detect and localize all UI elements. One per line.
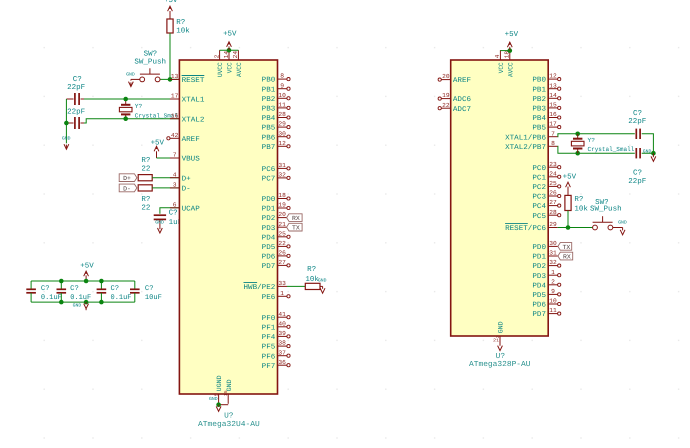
pin UVCC 2 (top): [213, 50, 224, 77]
svg-text:PB1: PB1: [532, 86, 546, 94]
svg-text:VCC: VCC: [498, 62, 505, 73]
svg-text:PF6: PF6: [262, 353, 276, 361]
pin PB3 15: [532, 102, 560, 114]
svg-text:26: 26: [278, 250, 286, 257]
pin RESET 13: [170, 73, 205, 85]
svg-text:29: 29: [278, 121, 286, 128]
junction bottom GND: [216, 402, 221, 407]
pin PD4 2: [532, 278, 560, 290]
svg-text:22: 22: [278, 240, 286, 247]
wire right caps to ground corner: [642, 134, 654, 153]
resistor R? 10k (RESET pullup): [167, 19, 190, 36]
switch SW? SW_Push (right): [590, 199, 623, 230]
svg-text:GND: GND: [618, 220, 627, 226]
wire ground bottom rail: [31, 301, 135, 303]
IC U? ATmega32U4-AU: [179, 60, 277, 394]
pin PC3 26: [532, 190, 560, 202]
svg-text:XTAL2/PB7: XTAL2/PB7: [505, 143, 546, 152]
svg-text:PC1: PC1: [532, 174, 546, 182]
pin PB6 30: [262, 130, 290, 142]
svg-text:PB0: PB0: [262, 77, 276, 85]
pin PD3 1: [532, 269, 560, 281]
svg-text:0.1uF: 0.1uF: [111, 294, 132, 302]
svg-text:PB2: PB2: [532, 96, 546, 104]
resistor R? 10k (HWB): [305, 266, 320, 290]
pin PD5 9: [532, 288, 560, 300]
pin UGND 5 (bottom): [214, 375, 223, 403]
global label D+: [119, 174, 137, 182]
svg-text:17: 17: [549, 121, 557, 128]
pin ADC7 22: [438, 102, 471, 114]
svg-text:XTAL1/PB6: XTAL1/PB6: [505, 133, 546, 142]
svg-text:PC0: PC0: [532, 165, 546, 173]
pin RESET/PC6 29: [505, 221, 558, 233]
svg-text:Crystal_Small: Crystal_Small: [588, 146, 635, 153]
svg-text:9: 9: [280, 82, 284, 89]
pin PC0 23: [532, 161, 560, 173]
svg-text:PD2: PD2: [532, 263, 546, 271]
pin VCC 14 (top): [223, 50, 234, 73]
svg-text:GND: GND: [498, 321, 505, 333]
pin PB1 9: [262, 82, 290, 94]
wire VBUS net: [157, 157, 180, 159]
svg-text:PD1: PD1: [262, 206, 276, 214]
svg-text:C?: C?: [633, 170, 642, 178]
wire top VCC link (right IC): [500, 50, 509, 52]
svg-text:20: 20: [442, 73, 450, 80]
pin AVCC 24 (top): [232, 50, 243, 77]
pin VBUS 7: [170, 152, 200, 164]
wire +5V top rail: [31, 280, 135, 282]
svg-text:+5V: +5V: [223, 31, 237, 39]
svg-text:RESET/PC6: RESET/PC6: [505, 224, 546, 233]
svg-text:26: 26: [549, 190, 557, 197]
svg-text:PF1: PF1: [262, 324, 276, 332]
svg-text:U?: U?: [224, 411, 233, 420]
svg-text:AREF: AREF: [182, 136, 200, 144]
global label TX (right IC PD0): [558, 243, 572, 251]
pin PD3 21: [262, 221, 287, 233]
svg-text:8: 8: [551, 140, 555, 147]
svg-text:PB3: PB3: [532, 106, 546, 114]
wire RESET/PC6 to switch: [558, 227, 593, 229]
pin PD7 11: [532, 307, 560, 319]
pin PC2 25: [532, 180, 560, 192]
svg-text:10uF: 10uF: [145, 294, 162, 302]
svg-text:25: 25: [549, 180, 557, 187]
svg-text:PD5: PD5: [262, 244, 276, 252]
capacitor C? 22pF (XTAL1): [66, 76, 85, 105]
svg-text:PB4: PB4: [532, 115, 546, 123]
wire capacitor rail to ground: [65, 99, 67, 143]
pin GND 3 (bottom right IC): [496, 321, 505, 345]
pin XTAL2 16: [170, 112, 205, 124]
ground at crystal capacitors: [62, 136, 71, 150]
svg-text:PB5: PB5: [262, 125, 276, 133]
svg-text:UVCC: UVCC: [217, 62, 224, 77]
pin PF6 37: [262, 349, 290, 361]
svg-text:2: 2: [551, 278, 555, 285]
pin PC1 24: [532, 170, 560, 182]
svg-text:12: 12: [549, 73, 557, 80]
svg-text:37: 37: [278, 349, 286, 356]
pin ADC6 19: [438, 92, 471, 104]
svg-text:PB4: PB4: [262, 115, 276, 123]
svg-text:PD2: PD2: [262, 215, 276, 223]
svg-text:+5V: +5V: [80, 263, 94, 271]
svg-text:GND: GND: [318, 277, 327, 283]
svg-text:27: 27: [549, 199, 557, 206]
pin XTAL2/PB7 8: [505, 140, 558, 152]
svg-text:PD4: PD4: [262, 234, 276, 242]
svg-text:C?: C?: [41, 285, 50, 293]
capacitor C? 10uF (4): [130, 281, 162, 302]
pin PC7 32: [262, 172, 290, 184]
pin D+ 4: [170, 171, 191, 183]
pin PB4 28: [262, 111, 290, 123]
svg-text:RX: RX: [563, 254, 571, 261]
svg-text:GND: GND: [226, 379, 233, 391]
pin PD1 31: [532, 250, 557, 262]
junction bottom rail C2: [59, 300, 64, 305]
pin PD7 27: [262, 259, 290, 271]
svg-text:13: 13: [171, 73, 179, 80]
wire XTAL2/PB7 jog down: [558, 146, 635, 153]
svg-text:16: 16: [549, 111, 557, 118]
svg-text:GND: GND: [643, 148, 652, 154]
power +5V (right IC VCC): [505, 31, 519, 51]
svg-text:PB3: PB3: [262, 106, 276, 114]
svg-text:10: 10: [278, 92, 286, 99]
resistor R? 22 (D+): [138, 157, 152, 181]
svg-text:4: 4: [494, 54, 501, 58]
svg-text:0.1uF: 0.1uF: [41, 294, 62, 302]
svg-text:PC7: PC7: [262, 176, 276, 184]
svg-text:C?: C?: [169, 210, 178, 218]
svg-text:XTAL1: XTAL1: [182, 97, 205, 105]
svg-text:ATmega328P-AU: ATmega328P-AU: [469, 360, 531, 369]
svg-text:21: 21: [493, 339, 499, 344]
svg-text:8: 8: [280, 73, 284, 80]
svg-text:38: 38: [278, 340, 286, 347]
svg-text:PD6: PD6: [262, 254, 276, 262]
svg-text:19: 19: [442, 92, 450, 99]
svg-text:PF4: PF4: [262, 334, 276, 342]
wire RESET net vertical: [169, 33, 171, 79]
junction bottom rail C3: [99, 300, 104, 305]
pin HWB/PE2 33: [244, 280, 288, 292]
capacitor C? 22pF (XTAL2): [66, 108, 85, 129]
svg-text:25: 25: [278, 230, 286, 237]
pin PB2 14: [532, 92, 560, 104]
svg-text:21: 21: [278, 221, 286, 228]
svg-text:22pF: 22pF: [628, 178, 646, 186]
svg-text:27: 27: [278, 259, 286, 266]
svg-text:11: 11: [549, 307, 557, 314]
svg-text:XTAL2: XTAL2: [182, 116, 205, 124]
pin AREF 20: [438, 73, 471, 85]
svg-text:AVCC: AVCC: [507, 62, 514, 77]
svg-text:PC4: PC4: [532, 203, 546, 211]
pin PE6 1: [262, 290, 290, 302]
svg-text:PD1: PD1: [532, 254, 546, 262]
global label D-: [119, 184, 137, 192]
svg-text:PC3: PC3: [532, 194, 546, 202]
svg-text:PB6: PB6: [262, 134, 276, 142]
pin PD5 22: [262, 240, 290, 252]
svg-text:PF5: PF5: [262, 344, 276, 352]
svg-text:D-: D-: [123, 185, 131, 192]
svg-text:2: 2: [213, 54, 220, 58]
resistor R? 22 (D-): [138, 185, 152, 213]
svg-text:10: 10: [549, 298, 557, 305]
ground at right switch: [618, 220, 627, 235]
junction RESET/switch: [168, 77, 173, 82]
svg-text:C?: C?: [70, 285, 79, 293]
svg-text:PD0: PD0: [532, 244, 546, 252]
pin PB5 29: [262, 121, 290, 133]
svg-text:VCC: VCC: [227, 62, 234, 73]
pin PD2 32: [532, 259, 560, 271]
svg-text:GND: GND: [209, 396, 218, 402]
svg-text:20: 20: [278, 211, 286, 218]
pin AVCC 18 (top): [504, 50, 515, 77]
svg-text:36: 36: [278, 359, 286, 366]
svg-text:PD7: PD7: [532, 311, 546, 319]
svg-text:33: 33: [278, 280, 286, 287]
svg-text:29: 29: [549, 221, 557, 228]
svg-text:+5V: +5V: [563, 173, 577, 181]
ground at right IC: [493, 339, 502, 351]
svg-text:C?: C?: [633, 110, 642, 118]
svg-text:5: 5: [214, 393, 219, 396]
svg-text:11: 11: [278, 102, 286, 109]
svg-text:10k: 10k: [176, 27, 190, 36]
ground at left IC: [209, 396, 221, 412]
svg-text:22pF: 22pF: [67, 108, 85, 116]
junction top AVCC: [508, 48, 513, 53]
svg-text:24: 24: [232, 51, 239, 59]
ground at HWB resistor: [318, 277, 327, 293]
svg-text:17: 17: [171, 93, 179, 100]
power +5V (left IC VCC): [223, 31, 237, 51]
svg-text:RX: RX: [292, 215, 300, 222]
wire RESET net to IC: [160, 78, 180, 80]
svg-text:D-: D-: [182, 186, 191, 194]
junction right crystal bottom: [575, 151, 580, 156]
pin PB5 17: [532, 121, 560, 133]
svg-text:GND: GND: [155, 220, 164, 226]
junction right crystal top: [575, 132, 580, 137]
svg-text:32: 32: [549, 259, 557, 266]
pin PD1 19: [262, 202, 290, 214]
svg-text:PB0: PB0: [532, 77, 546, 85]
svg-text:+5V: +5V: [164, 0, 178, 5]
svg-text:ADC7: ADC7: [453, 106, 471, 114]
junction top rail C2: [59, 279, 64, 284]
svg-text:R?: R?: [141, 157, 150, 165]
svg-text:9: 9: [551, 288, 555, 295]
wire top VCC rail: [220, 49, 239, 51]
svg-text:15: 15: [549, 102, 557, 109]
svg-text:R?: R?: [574, 196, 583, 204]
crystal Y? Crystal_Small (right): [571, 134, 634, 153]
pin AREF 42: [167, 132, 200, 144]
junction right ground: [651, 151, 656, 156]
pin PF4 39: [262, 330, 290, 342]
capacitor C? 0.1uF (1): [26, 281, 62, 302]
capacitor C? 22pF (right bottom): [628, 148, 646, 186]
svg-text:GND: GND: [126, 72, 135, 78]
power +5V (decoupling rail): [80, 263, 94, 281]
capacitor C? 1uF (UCAP): [154, 210, 183, 230]
svg-text:PF7: PF7: [262, 363, 276, 371]
svg-text:23: 23: [549, 161, 557, 168]
svg-text:ADC6: ADC6: [453, 96, 471, 104]
svg-text:PD4: PD4: [532, 282, 546, 290]
svg-text:31: 31: [278, 162, 286, 169]
svg-text:C?: C?: [111, 285, 120, 293]
svg-text:GND: GND: [73, 302, 82, 308]
svg-text:PD0: PD0: [262, 196, 276, 204]
pin PF5 38: [262, 340, 290, 352]
svg-text:22: 22: [442, 102, 450, 109]
svg-text:PD6: PD6: [532, 302, 546, 310]
pin PC5 28: [532, 209, 560, 221]
resistor R? 10k (right RESET pullup): [565, 195, 589, 213]
capacitor C? 0.1uF (3): [97, 281, 132, 302]
capacitor C? 0.1uF (2): [57, 281, 92, 302]
svg-text:UGND: UGND: [216, 375, 223, 391]
svg-text:R?: R?: [141, 196, 150, 204]
svg-text:41: 41: [278, 311, 286, 318]
pin PF7 36: [262, 359, 290, 371]
pin GND 15 (bottom): [224, 379, 233, 403]
global label RX (right IC PD1): [558, 252, 573, 260]
svg-text:VBUS: VBUS: [182, 156, 200, 164]
svg-text:28: 28: [549, 209, 557, 216]
svg-text:PC2: PC2: [532, 184, 546, 192]
global label TX (left IC PD3): [287, 223, 303, 231]
svg-text:7: 7: [173, 152, 177, 159]
svg-text:22pF: 22pF: [628, 118, 646, 126]
svg-text:C?: C?: [73, 76, 82, 84]
pin PB2 10: [262, 92, 290, 104]
pin PC6 31: [262, 162, 290, 174]
svg-text:16: 16: [171, 112, 179, 119]
svg-text:GND: GND: [62, 136, 71, 142]
ground at right crystal capacitors: [643, 148, 656, 161]
junction C?/rail: [64, 121, 69, 126]
junction crystal bottom: [123, 116, 128, 121]
svg-text:HWB/PE2: HWB/PE2: [244, 283, 276, 292]
svg-text:39: 39: [278, 330, 286, 337]
svg-text:PD5: PD5: [532, 292, 546, 300]
pin XTAL1/PB6 7: [505, 130, 558, 142]
wire D+ to IC: [152, 177, 179, 179]
junction top VCC: [227, 48, 232, 53]
svg-text:30: 30: [278, 130, 286, 137]
svg-text:AREF: AREF: [453, 77, 471, 85]
svg-text:PD3: PD3: [262, 225, 276, 233]
svg-text:PC6: PC6: [262, 166, 276, 174]
pin PC4 27: [532, 199, 560, 211]
capacitor C? 22pF (right top): [628, 110, 646, 139]
svg-text:40: 40: [278, 320, 286, 327]
svg-text:32: 32: [278, 172, 286, 179]
svg-text:4: 4: [173, 171, 177, 178]
svg-text:ATmega32U4-AU: ATmega32U4-AU: [198, 420, 260, 429]
svg-text:U?: U?: [496, 352, 505, 361]
pin PF0 41: [262, 311, 290, 323]
switch SW? SW_Push: [131, 50, 166, 81]
svg-text:TX: TX: [563, 244, 571, 251]
junction RESET right: [566, 225, 571, 230]
svg-text:PB1: PB1: [262, 86, 276, 94]
power +5V (VBUS): [151, 139, 165, 158]
ground at UCAP capacitor: [155, 220, 164, 233]
svg-text:PB7: PB7: [262, 144, 276, 152]
wire bottom GND link: [219, 404, 229, 406]
svg-text:SW_Push: SW_Push: [134, 58, 166, 67]
pin PB7 12: [262, 140, 290, 152]
svg-text:1: 1: [551, 269, 555, 276]
pin PD0 30: [532, 240, 557, 252]
svg-text:D+: D+: [182, 175, 191, 183]
svg-text:3: 3: [173, 182, 177, 189]
global label RX (left IC PD2): [287, 214, 303, 222]
svg-text:PF0: PF0: [262, 315, 276, 323]
svg-text:Y?: Y?: [135, 103, 143, 110]
pin XTAL1 17: [170, 93, 205, 105]
svg-text:+5V: +5V: [151, 139, 165, 147]
svg-text:D+: D+: [123, 175, 131, 182]
svg-text:10k: 10k: [574, 204, 588, 213]
pin PB1 13: [532, 82, 560, 94]
pin PB0 12: [532, 73, 560, 85]
IC U? ATmega328P-AU: [451, 60, 549, 336]
crystal Y? Crystal_Small (left): [119, 99, 181, 120]
svg-text:R?: R?: [307, 266, 316, 274]
svg-text:22: 22: [141, 205, 150, 213]
svg-text:22pF: 22pF: [67, 84, 85, 92]
svg-text:42: 42: [171, 132, 179, 139]
pin PD2 20: [262, 211, 287, 223]
svg-text:RESET: RESET: [182, 77, 206, 85]
svg-text:31: 31: [549, 250, 557, 257]
junction top rail C3: [99, 279, 104, 284]
pin PD0 18: [262, 192, 290, 204]
svg-text:6: 6: [173, 201, 177, 208]
svg-text:PD7: PD7: [262, 263, 276, 271]
svg-text:R?: R?: [176, 19, 185, 27]
pin VCC 4 (top): [494, 50, 505, 73]
svg-text:SW?: SW?: [144, 50, 157, 58]
svg-text:C?: C?: [145, 285, 154, 293]
svg-text:PB2: PB2: [262, 96, 276, 104]
svg-text:SW_Push: SW_Push: [590, 204, 622, 213]
wire D- to IC: [152, 187, 179, 189]
pin PB3 11: [262, 102, 290, 114]
svg-text:PC5: PC5: [532, 213, 546, 221]
ground at switch SW?: [126, 72, 135, 87]
ground at decoupling rail: [73, 300, 89, 310]
svg-text:+5V: +5V: [505, 31, 519, 39]
svg-text:TX: TX: [292, 225, 300, 232]
wire XTAL1/PB6 jog up: [558, 134, 635, 137]
svg-text:14: 14: [549, 92, 557, 99]
svg-text:UCAP: UCAP: [182, 205, 200, 213]
